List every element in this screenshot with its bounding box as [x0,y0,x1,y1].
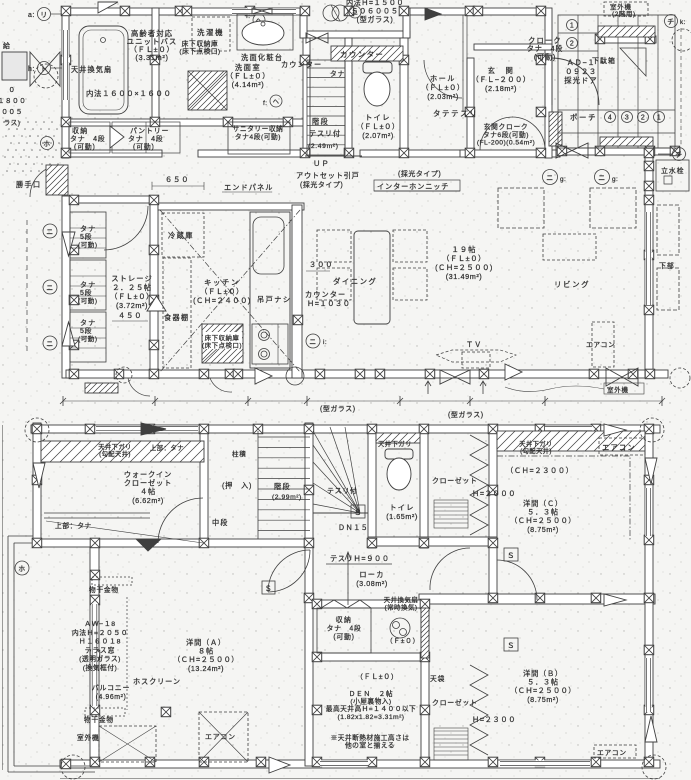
closetB ladder hatch [434,728,468,760]
1F right dim dashed line [680,28,682,147]
washroom hatch diag [188,71,227,110]
circled he f top [253,14,265,26]
vent marker box 1 [498,188,544,228]
1F bottom hatch band [85,383,118,393]
corridor door arc 2 [430,548,470,590]
2F wall pillar 53 [61,759,71,769]
wall pillar 17 [223,117,233,127]
bottom wall white triangle [255,368,272,384]
wall pillar 28 [536,148,546,158]
storage shelf line 8 [70,337,106,339]
2F wall pillar 37 [644,645,654,655]
interfloor dim line [63,400,662,402]
svg-text:(ＣＨ=２５００): (ＣＨ=２５００) [435,263,493,272]
entrance cloak door arc left [480,117,513,150]
svg-text:エアコン: エアコン [205,733,236,741]
shoe cabinet [620,48,646,76]
wall pillar 57 [557,146,567,156]
2F vent fan inner 2 [400,629,407,636]
2F wall pillar 10 [535,424,545,434]
entrance cloak side hatch [549,112,562,146]
svg-text:ニ: ニ [546,175,553,182]
svg-text:a:: a: [28,12,35,19]
closetC ladder hatch [434,500,468,528]
svg-text:下部: 下部 [659,261,675,270]
2F wallA arrow [136,539,161,551]
2F wall pillar 2 [85,424,95,434]
wall pillar 30 [149,195,159,205]
wall pillar 12 [61,55,71,64]
svg-text:（ＦＬ−２００）: （ＦＬ−２００） [472,75,531,84]
circled ri [38,8,51,21]
2F wall pillar 49 [591,757,601,767]
storage shelf line 1 [70,227,106,229]
wall pillar 51 [645,369,655,379]
wall pillar 47 [425,369,435,379]
kitchen floor hatch labels [202,333,242,350]
stove divider [277,324,279,364]
svg-text:勝手口: 勝手口 [16,180,41,189]
svg-text:洗面化粧台: 洗面化粧台 [241,53,283,62]
storage wall arrow 2 [62,322,75,346]
svg-text:(勾配天井): (勾配天井) [520,446,552,455]
svg-text:f:: f: [263,100,267,107]
svg-text:(8.75m²): (8.75m²) [527,695,559,704]
top wall solid triangle [425,8,441,20]
toilet bowl 1F [364,72,390,106]
2F bottom wall B window [500,760,590,767]
2F wall pillar 26 [90,705,100,715]
svg-text:（ＦＬ±０）: （ＦＬ±０） [356,122,399,131]
svg-text:吊戸ナシ: 吊戸ナシ [257,295,292,304]
circled ni g1 [543,170,558,185]
2F right outer wall [645,427,653,766]
svg-text:Ｓ: Ｓ [507,641,515,650]
outdoor unit boxed label [604,383,644,394]
2F vent fan circle [390,618,410,638]
storage shelf line 6 [70,295,106,297]
circled chi k [665,15,678,28]
corridor door arc 1 [268,550,310,592]
stair tread 1F 2 [307,77,345,79]
2F wall pillar 19 [367,538,377,548]
washroom hatch diag2 [188,71,227,110]
2F top wall WIC window [96,425,198,432]
washbasin counter [237,14,293,50]
svg-text:ニ: ニ [352,10,359,17]
svg-text:(2.07m²): (2.07m²) [362,131,394,140]
sanitary storage box [228,122,290,154]
storage door arc [104,206,148,250]
washbasin faucet [261,22,265,26]
wall pillar 55 [595,34,605,44]
1F kitchen top wall [158,203,304,210]
living table [543,234,596,260]
aircon C dashed [599,438,645,455]
porch grid hline 3 [558,109,675,111]
wall pillar 26 [536,55,546,64]
wall pillar 53 [644,250,654,260]
AD-1 labels [564,58,597,85]
1F main divider wall left [62,150,162,157]
wall pillar 6 [300,6,310,16]
roomC ceiling label [519,439,553,455]
svg-text:タナ 4段: タナ 4段 [70,134,105,143]
svg-text:(床下点検口): (床下点検口) [202,341,242,350]
end panel underline [222,191,272,193]
svg-text:タナ: タナ [330,69,345,78]
svg-text:ＵＰ: ＵＰ [313,159,330,168]
svg-text:エアコン: エアコン [602,443,636,452]
2F storage door zigzag [321,600,371,608]
stove burner 1 [259,330,270,341]
toilet tank 1F [363,62,392,73]
porch circled number ① [654,112,665,123]
svg-text:(可動): (可動) [78,240,98,249]
hall door arc [424,60,462,98]
bath drain [101,38,106,43]
boiler box [2,52,27,80]
stove burner 2 inner [261,351,267,357]
wall pillar 49 [589,369,599,379]
up arrow 1 [425,381,431,394]
2F wall pillar 28 [304,593,314,603]
boiler dashed circle [34,64,58,88]
AD-1 door leaf [551,58,553,105]
2F bottom arrow [269,757,290,773]
wall pillar 13 [61,117,71,127]
kitchen diag 1 [160,210,300,372]
svg-text:トイレ: トイレ [365,113,391,122]
porch grid hline 4 [558,132,675,134]
svg-text:１８００: １８００ [0,98,26,105]
2F wall pillar 35 [644,475,654,485]
2F right wall C window [645,488,652,536]
2F stair tread 6 [258,488,310,490]
tesuri H900 underline [326,563,392,565]
svg-text:(4.14m²): (4.14m²) [232,80,265,89]
2F stair tread 10 [258,530,310,532]
circled ni g2 [595,170,610,185]
2F wall pillar 24 [90,595,100,605]
svg-text:４５０: ４５０ [118,311,142,320]
svg-text:(床下点検口): (床下点検口) [179,47,220,56]
svg-text:Ｓ: Ｓ [354,508,362,517]
svg-text:収納: 収納 [72,126,88,135]
2F wall pillar 7 [367,424,377,434]
svg-text:天井下ガリ: 天井下ガリ [378,439,412,448]
svg-text:(小屋裏物入): (小屋裏物入) [350,697,391,706]
svg-text:天井下ガリ: 天井下ガリ [519,439,553,448]
2F wall pillar 14 [32,538,42,548]
wall pillar 59 [645,146,655,156]
storage shelf 2 [70,260,106,310]
2F left dim line [2,425,4,770]
2F toilet right wall [420,427,428,548]
2F wall pillar 31 [488,593,498,603]
wall pillar 4 [182,6,192,16]
svg-text:床下収納庫: 床下収納庫 [205,333,240,342]
1F right wall living window [645,212,652,305]
svg-text:ＴＶ: ＴＶ [466,340,482,349]
2F bottom dim line [60,778,660,780]
svg-text:階段: 階段 [312,117,329,126]
2F stair tread 5 [258,478,310,480]
svg-text:テラス窓: テラス窓 [85,645,116,654]
roomC labels [510,499,576,534]
washing machine box [192,17,230,51]
TV inner box [462,352,490,368]
wall pillar 21 [344,148,354,158]
svg-text:上部：タナ: 上部：タナ [55,521,92,530]
svg-text:1: 1 [570,23,574,30]
2F storage DEN divider [313,600,429,608]
2F top outer wall [31,425,660,433]
2F wall pillar 16 [199,538,209,548]
2F right arrow 1 [645,458,657,484]
2F wall pillar 25 [90,650,100,660]
svg-text:ニ: ニ [46,285,53,292]
svg-text:インターホンニッチ: インターホンニッチ [377,182,449,191]
svg-text:バルコニー: バルコニー [92,684,130,692]
2F wall pillar 33 [591,593,601,603]
2F wall pillar 13 [32,475,42,485]
2F wall pillar 39 [644,757,654,767]
svg-text:階段: 階段 [274,482,291,491]
stair tread 1F 7 [307,125,345,127]
storage shelf line 4 [70,275,106,277]
living area labels 19帖 [435,245,493,281]
1F top jog stub left [300,8,307,38]
2F wall pillar 15 [90,538,100,548]
svg-text:最高天井高Ｈ=１４００以下: 最高天井高Ｈ=１４００以下 [326,704,416,713]
porch boundary [558,15,675,148]
svg-text:ローカ: ローカ [359,570,384,579]
svg-text:（ＦＬ±０）: （ＦＬ±０） [356,673,398,681]
2F toilet bowl [387,458,411,490]
1F wall below bath [62,119,308,126]
wall pillar 22 [399,148,409,158]
wall pillar 48 [479,369,489,379]
svg-text:2: 2 [641,115,645,122]
wall pillar 10 [473,6,483,16]
kitchen door outer step [46,165,68,195]
2F toilet tank [385,449,413,459]
svg-text:物干金物: 物干金物 [89,585,119,594]
2F wall pillar 30 [420,599,430,609]
2F left arrow [33,463,45,488]
1F entrance bottom wall [460,150,560,157]
hall labels [421,74,464,101]
kitchen wall triangle [147,296,166,311]
storage shelf line 3 [70,247,106,249]
2F stair rail [313,512,368,514]
WIC ceiling band [41,441,204,462]
svg-text:（Ｆ±０）: （Ｆ±０） [386,637,420,645]
svg-text:(31.49m²): (31.49m²) [446,272,483,281]
1F left outer wall lower [62,196,70,378]
svg-text:(可動): (可動) [133,142,155,151]
2F wall pillar 40 [312,652,322,662]
svg-text:エンドパネル: エンドパネル [224,183,273,192]
2F dashed circle TL [25,418,49,442]
svg-text:i:: i: [323,339,327,346]
wall pillar 25 [465,107,475,117]
2F dashed circle BL [61,755,85,779]
wall pillar 27 [536,107,546,117]
interfloor dim ticks [60,396,665,406]
svg-text:テスリ付: テスリ付 [327,486,357,495]
svg-text:エアコン: エアコン [586,341,615,349]
hosuclean line [126,597,128,710]
storage room labels [110,274,154,310]
1F left boundary dashes [26,220,28,352]
1F bottom right dashed circle [670,368,690,388]
2F stair tread 9 [258,519,310,521]
boiler wall bowtie [30,52,60,86]
svg-text:タナ 4段: タナ 4段 [327,623,362,632]
porch circled number ④ [605,112,616,123]
2F stair tread 1 [258,436,310,438]
closetC bifold door [470,435,488,535]
2F wall pillar 11 [591,424,601,434]
2F dashed circle TR [640,418,664,442]
1F porch awning wall [596,36,656,43]
svg-text:Ｈ１６０１8: Ｈ１６０１8 [79,638,121,646]
wall pillar 44 [315,369,325,379]
2F dashed circle BR [642,755,666,779]
2F wall pillar 32 [535,593,545,603]
storage shelf 3 [70,312,106,362]
svg-text:ＡＷ−１8: ＡＷ−１8 [84,620,116,628]
standpipe symbol [664,176,672,184]
2F wall pillar 46 [420,757,430,767]
svg-text:（ＦＬ±０）: （ＦＬ±０） [110,292,154,301]
svg-text:内法１６００×１６００: 内法１６００×１６００ [86,88,172,98]
2F wall pillar 27 [90,757,100,767]
fridge box 冷蔵庫 [162,213,204,257]
2F right wall B window [645,658,652,712]
1F left wall bath window [62,30,69,100]
svg-text:ニ: ニ [598,175,605,182]
1F storage top wall [70,196,158,203]
svg-text:5段: 5段 [80,232,92,241]
svg-text:リビング: リビング [554,279,590,289]
wall pillar 1 [61,6,71,16]
svg-text:3: 3 [625,115,629,122]
svg-text:パントリー: パントリー [130,127,169,135]
standpipe pillar b [644,181,654,191]
porch grid vline 4 [637,15,639,148]
svg-text:柱積: 柱積 [232,449,247,458]
aircon box living [592,322,614,367]
roomB labels [510,669,576,704]
wall pillar 34 [69,369,79,379]
1F left ground stipple [3,121,60,172]
stair tread 1F 1 [307,67,345,69]
outset sliding door leaf [305,155,362,157]
washroom labels [226,63,270,89]
storage shelf 1 [70,212,106,258]
svg-text:(3.72m²): (3.72m²) [116,301,148,310]
terrace window lines [91,604,98,706]
wall pillar 43 [233,369,243,379]
2F wall pillar 38 [644,705,654,715]
circled to [38,62,51,75]
chi l arrow [658,153,672,155]
balcony pillar stub [161,707,171,717]
svg-text:カウンター: カウンター [340,50,384,59]
1F washroom right wall [303,38,310,157]
svg-text:収納: 収納 [336,615,352,624]
wall pillar 40 [293,315,303,325]
svg-text:タナ6段(可動): タナ6段(可動) [483,130,529,139]
svg-text:テスリＨ=９００: テスリＨ=９００ [330,554,390,563]
wall pillar 45 [355,369,365,379]
2F left outer wall [33,423,41,545]
svg-text:玄 関: 玄 関 [488,66,515,75]
dining chair 4 [393,268,427,300]
circled ni top [349,6,361,18]
porch grid hline 1 [558,32,598,34]
S box C [504,548,518,561]
stair tread 1F 9 [307,144,345,146]
roomA door arc [268,550,310,592]
wall pillar 16 [150,55,160,64]
bottom wall bowtie mid [440,370,470,384]
svg-text:００５: ００５ [1,109,23,116]
2F storage box [317,608,371,653]
kitchen floor hatch box [202,324,243,363]
svg-text:エアコン: エアコン [597,749,627,757]
2F wall WIC bottom [33,539,310,547]
WIC door arc [158,498,203,543]
wall pillar 31 [69,245,79,255]
AD-1 door arc [552,58,599,105]
1F hall closet wall [467,58,474,157]
wall pillar 9 [465,6,475,16]
wall pillar 42 [199,369,209,379]
circled ni storage 2 [43,280,57,294]
cupboard box 食器棚 [163,258,191,368]
svg-text:中段: 中段 [212,518,228,527]
DEN right wall hatch [421,608,429,658]
svg-text:ホ: ホ [18,565,25,573]
2F wall pillar 48 [535,757,545,767]
svg-text:ニ: ニ [309,339,316,346]
dim 650 line [152,182,204,190]
1F left outer wall upper [62,8,69,158]
porch circled 1 top [567,20,578,31]
kitchen labels [193,278,251,305]
porch grid hline 2 [558,50,598,52]
svg-text:０: ０ [8,87,15,94]
svg-text:(ＣＨ=２４００): (ＣＨ=２４００) [193,296,251,305]
storage shelf line 2 [70,237,106,239]
WIC diag [46,521,203,543]
svg-text:(13.24m²): (13.24m²) [188,664,224,673]
svg-text:(1.65m²): (1.65m²) [386,512,418,521]
porch grid vline 1 [577,15,579,148]
margin numbers [0,87,26,127]
svg-text:(2階用): (2階用) [612,9,636,18]
wall pillar 32 [69,295,79,305]
corridor arrow [345,552,351,605]
bathtub inner [83,30,124,110]
svg-text:給: 給 [3,41,10,50]
2F stair tread 7 [258,498,310,500]
roomC ceiling dash boundary [497,456,630,540]
